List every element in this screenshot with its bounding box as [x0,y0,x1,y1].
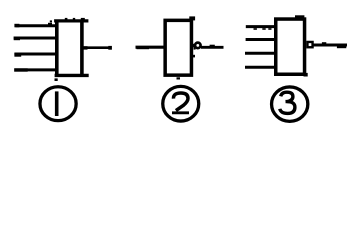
start blob of wire input 2 of element 1 [14,37,20,41]
digit 2 base bar [172,111,189,114]
wire input 4 of element 1 [14,68,56,71]
wire output of element 1 [84,46,112,49]
corner blob bottom-right of box U3 [304,73,308,77]
bridge between box U2 edge and bubble [193,44,195,47]
wire input 2 of element 3 [246,38,277,41]
thick right side of label circle 3 [307,98,308,111]
wire input of element 2 [136,46,166,49]
speck below box U1 bottom-left [55,78,58,81]
bump above output wire of element 2 [210,45,215,47]
inversion square bubble of element 3 [307,42,312,47]
inversion bubble of element 2 [195,43,201,49]
start blob of wire input 1 of element 1 [14,24,19,28]
IC box U1 top edge [54,19,88,22]
label circle 1 [40,87,76,121]
lower lip on wire input of element 2 [137,48,150,49]
IC box U3 [276,19,305,74]
wire input 3 of element 3 [245,52,277,55]
wire output of element 3 [314,44,348,47]
ticks below wire input 1 of element 3 [254,28,257,30]
digit 3 lower bowl [280,102,295,114]
wire input 3 of element 1 [14,53,56,56]
corner blob top-right of box U2 [189,16,195,20]
IC box U1 right edge [80,20,84,78]
label circle 3 [272,87,308,121]
bump on right edge of box U2 [193,55,195,58]
digit 1 [55,91,59,116]
tick below box U2 bottom edge [177,77,181,79]
blob on output wire of element 3 [337,44,346,48]
corner blob top-right of box U3 [295,15,304,18]
end blob of output wire of element 1 [108,46,112,50]
wire input 1 of element 1 [16,24,57,27]
IC box U1 left edge [55,20,59,78]
wire output of element 2 [201,46,224,49]
wire input 4 of element 3 [245,66,277,69]
wire input 2 of element 1 [14,37,57,40]
speck left of box U1 [50,20,52,22]
start blob of wire input 4 of element 1 [14,68,28,71]
label circle 2 [163,86,199,121]
digit 2 stroke [173,93,188,111]
tail below bubble of element 2 [194,47,196,50]
joint blob at output of element 1 [84,46,88,49]
bumps on top edge of box U1 [65,18,68,20]
bump above output wire of element 3 [322,42,326,44]
digit 3 upper bowl [281,92,293,101]
wire input 1 of element 3 [246,25,277,28]
IC box U2 [165,20,191,75]
IC box U1 bottom edge [55,74,89,77]
start blob of wire input 3 of element 1 [14,53,21,57]
bump on wire input 1 of element 1 [48,23,52,25]
